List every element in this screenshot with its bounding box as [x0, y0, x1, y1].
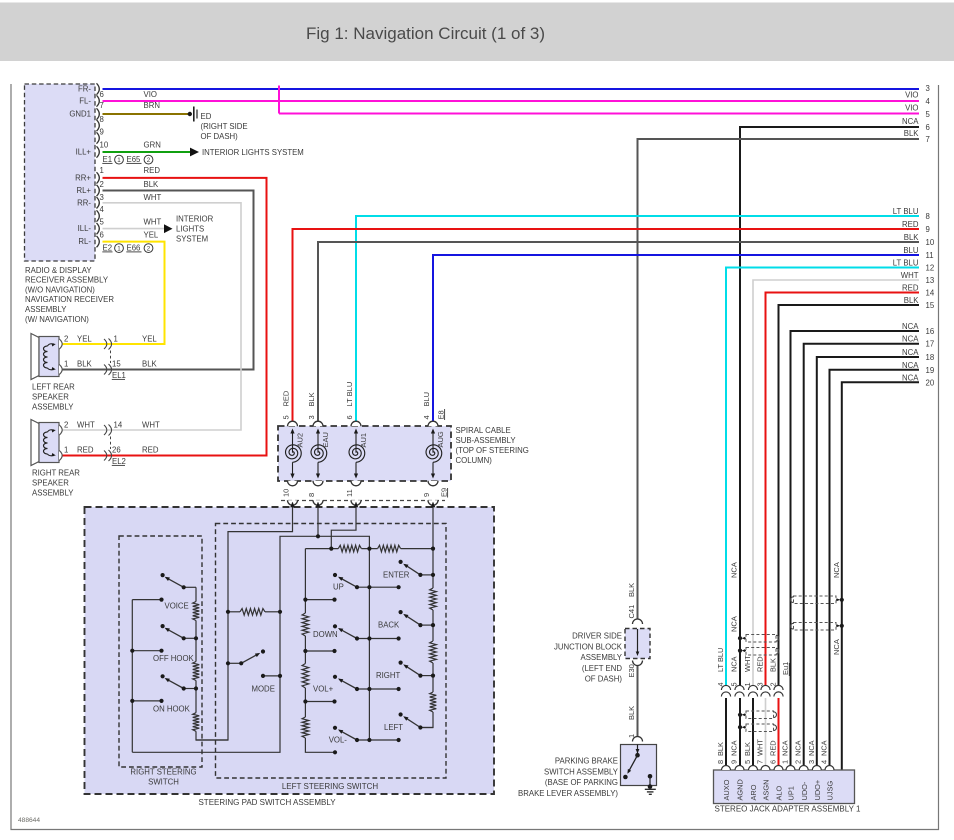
svg-text:2: 2 — [147, 246, 151, 253]
svg-text:RED: RED — [142, 446, 159, 455]
wire right pin 12 LT BLU to stereo AUXO connector — [726, 268, 919, 686]
svg-text:NCA: NCA — [902, 117, 919, 126]
svg-text:GRN: GRN — [144, 141, 161, 150]
wire pin8 branch left to MODE rail — [132, 536, 318, 752]
svg-text:6: 6 — [345, 415, 354, 419]
svg-text:Eu1: Eu1 — [781, 662, 790, 675]
svg-text:E30: E30 — [627, 664, 636, 677]
svg-text:6: 6 — [769, 760, 778, 764]
ground symbol — [648, 774, 653, 779]
svg-text:NCA: NCA — [902, 348, 919, 357]
svg-text:9: 9 — [100, 128, 104, 137]
svg-text:AU1: AU1 — [359, 433, 368, 448]
svg-text:5: 5 — [926, 110, 931, 119]
svg-text:UDO-: UDO- — [800, 781, 809, 800]
svg-text:BRAKE LEVER ASSEMBLY): BRAKE LEVER ASSEMBLY) — [518, 789, 618, 798]
svg-text:WHT: WHT — [144, 218, 162, 227]
svg-text:BLK: BLK — [77, 360, 93, 369]
left steering switch box — [216, 524, 447, 779]
svg-text:6: 6 — [926, 123, 930, 132]
svg-text:SPIRAL CABLE: SPIRAL CABLE — [456, 426, 511, 435]
svg-text:ARO: ARO — [749, 784, 758, 800]
svg-text:2: 2 — [64, 335, 68, 344]
svg-text:E66: E66 — [127, 244, 141, 253]
wire right pin 18 NCA to stereo UDO+ — [817, 357, 919, 766]
svg-text:RED: RED — [902, 220, 919, 229]
left speaker coil — [44, 346, 48, 368]
svg-text:2: 2 — [147, 157, 151, 164]
svg-text:Fig 1: Navigation Circuit (1 o: Fig 1: Navigation Circuit (1 of 3) — [306, 24, 545, 43]
svg-text:LT BLU: LT BLU — [345, 382, 354, 407]
svg-text:BACK: BACK — [378, 621, 400, 630]
svg-text:LEFT STEERING SWITCH: LEFT STEERING SWITCH — [282, 782, 379, 791]
radio connector E1 pin brackets — [97, 83, 100, 94]
svg-text:SWITCH: SWITCH — [148, 778, 179, 787]
svg-text:NCA: NCA — [820, 740, 829, 756]
ladder rail (middle) x369 — [368, 549, 370, 740]
svg-text:4: 4 — [422, 415, 431, 419]
stereo jack adapter assembly box — [714, 770, 855, 804]
svg-text:BLK: BLK — [307, 392, 316, 406]
switch UP — [339, 578, 357, 588]
resistor right rail upper — [430, 588, 437, 610]
spiral symbol EAU — [311, 445, 327, 462]
wire RL+ BLK to left rear speaker — [61, 191, 254, 370]
wire right rail mid1 — [432, 610, 434, 641]
right speaker inline connector EL2 — [104, 425, 107, 435]
svg-text:NCA: NCA — [902, 373, 919, 382]
svg-text:SUB-ASSEMBLY: SUB-ASSEMBLY — [456, 436, 517, 445]
svg-text:ALO: ALO — [775, 785, 784, 800]
spiral cable pin line with arrows (AU1) — [355, 431, 357, 453]
svg-text:DRIVER SIDE: DRIVER SIDE — [572, 632, 622, 641]
svg-text:16: 16 — [926, 327, 935, 336]
svg-text:12: 12 — [926, 264, 935, 273]
svg-text:3: 3 — [926, 84, 930, 93]
svg-text:E65: E65 — [127, 155, 142, 164]
svg-text:10: 10 — [100, 141, 109, 150]
wire right pin 14 RED to stereo ASGN connector — [766, 293, 920, 686]
svg-text:14: 14 — [926, 289, 935, 298]
svg-text:AGND: AGND — [736, 779, 745, 800]
parking brake switch assembly box — [621, 745, 657, 786]
svg-text:NCA: NCA — [794, 740, 803, 756]
switch ON HOOK — [184, 688, 196, 690]
wire AUXO BLK below connector — [725, 698, 727, 766]
wire VIO branch to right pin 5 — [278, 86, 280, 114]
svg-text:(LEFT END: (LEFT END — [582, 664, 623, 673]
svg-text:BLK: BLK — [904, 129, 920, 138]
svg-text:NCA: NCA — [730, 616, 739, 632]
svg-text:WHT: WHT — [142, 421, 160, 430]
spiral symbol AU1 — [349, 445, 365, 462]
right box stub rail x132 — [131, 600, 133, 753]
svg-text:UP: UP — [333, 583, 344, 592]
svg-text:13: 13 — [926, 276, 935, 285]
svg-text:5: 5 — [743, 760, 752, 764]
wire resistor row to right rail — [401, 548, 433, 550]
svg-text:5: 5 — [100, 218, 105, 227]
svg-text:VIO: VIO — [905, 104, 918, 113]
wire right pin 17 NCA to stereo UDO- — [804, 344, 919, 766]
svg-text:WHT: WHT — [77, 421, 95, 430]
wire BLK junction block to parking brake switch — [637, 664, 639, 738]
svg-text:2: 2 — [769, 682, 778, 686]
resistor R2 top row — [378, 545, 401, 552]
resistor right rail lower — [430, 692, 437, 712]
svg-text:INTERIOR: INTERIOR — [176, 215, 214, 224]
shield capsule right group — [794, 596, 837, 604]
svg-text:3: 3 — [100, 193, 104, 202]
svg-text:SYSTEM: SYSTEM — [176, 235, 208, 244]
svg-text:17: 17 — [926, 340, 935, 349]
svg-text:NAVIGATION RECEIVER: NAVIGATION RECEIVER — [25, 295, 114, 304]
svg-text:UJSG: UJSG — [826, 781, 835, 801]
wire right pin 7 BLK to junction block C41 — [638, 139, 920, 621]
svg-text:11: 11 — [345, 489, 354, 497]
svg-text:ASSEMBLY: ASSEMBLY — [581, 653, 623, 662]
svg-text:RED: RED — [902, 284, 919, 293]
svg-text:9: 9 — [730, 760, 739, 764]
switch VOICE — [184, 586, 196, 588]
svg-text:MODE: MODE — [252, 685, 275, 694]
svg-text:6: 6 — [100, 90, 104, 99]
svg-text:NCA: NCA — [902, 361, 919, 370]
svg-text:E2: E2 — [103, 244, 113, 253]
left rear speaker assembly — [31, 334, 39, 380]
svg-text:FL-: FL- — [79, 97, 91, 106]
svg-text:GND1: GND1 — [69, 110, 91, 119]
svg-text:LT BLU: LT BLU — [716, 648, 725, 672]
svg-text:EL1: EL1 — [112, 371, 126, 380]
svg-text:(TOP OF STEERING: (TOP OF STEERING — [456, 446, 529, 455]
svg-text:BLK: BLK — [904, 233, 920, 242]
resistor right rail mid — [430, 641, 437, 663]
wire AGND BLK below connector — [739, 698, 741, 766]
wire FL- VIO magenta to right pin 4 — [103, 100, 920, 102]
top resistor row wires — [305, 548, 338, 550]
svg-text:15: 15 — [112, 360, 121, 369]
svg-text:BLK: BLK — [144, 180, 160, 189]
svg-text:BLK: BLK — [627, 706, 636, 720]
left speaker terminals — [59, 339, 62, 349]
MODE switch — [228, 662, 241, 664]
wire between top resistors — [361, 548, 377, 550]
wire right pin 9 RED to spiral cable pin 5 — [293, 229, 920, 422]
svg-text:ASSEMBLY: ASSEMBLY — [25, 305, 67, 314]
svg-text:PARKING BRAKE: PARKING BRAKE — [555, 757, 618, 766]
svg-text:19: 19 — [926, 366, 935, 375]
svg-text:8: 8 — [716, 760, 725, 764]
switch RIGHT — [420, 675, 433, 677]
ladder rail left stubs — [305, 599, 334, 601]
svg-text:10: 10 — [926, 238, 935, 247]
right speaker terminals — [59, 425, 62, 435]
svg-text:UP1: UP1 — [787, 786, 796, 800]
wire RR+ RED to right rear speaker — [61, 178, 267, 456]
svg-text:7: 7 — [100, 101, 104, 110]
wire ILL+ GRN — [103, 151, 191, 153]
svg-text:ENTER: ENTER — [383, 570, 410, 579]
svg-text:NCA: NCA — [832, 639, 841, 655]
svg-text:26: 26 — [112, 446, 121, 455]
svg-text:NCA: NCA — [730, 562, 739, 578]
svg-text:LIGHTS: LIGHTS — [176, 225, 204, 234]
svg-text:2: 2 — [794, 760, 803, 764]
wire right rail to LEFT switch — [420, 712, 433, 728]
svg-text:NCA: NCA — [730, 656, 739, 672]
svg-text:VIO: VIO — [144, 90, 157, 99]
svg-text:SWITCH ASSEMBLY: SWITCH ASSEMBLY — [544, 767, 619, 776]
svg-text:15: 15 — [926, 301, 935, 310]
svg-text:1: 1 — [743, 682, 752, 686]
right rear speaker assembly — [31, 420, 39, 466]
svg-text:LEFT: LEFT — [384, 723, 403, 732]
svg-text:(RIGHT SIDE: (RIGHT SIDE — [201, 122, 248, 131]
MODE stub — [263, 675, 280, 677]
wire right pin 8 LT BLU to spiral cable pin 6 — [356, 216, 919, 422]
svg-text:OFF HOOK: OFF HOOK — [153, 654, 195, 663]
wire ASGN WHT below connector — [765, 698, 767, 766]
wire right rail mid2 — [432, 663, 434, 692]
svg-text:VOL-: VOL- — [329, 736, 348, 745]
svg-text:SPEAKER: SPEAKER — [32, 479, 69, 488]
switch VOL- — [339, 730, 357, 740]
svg-text:RIGHT STEERING: RIGHT STEERING — [130, 768, 196, 777]
svg-text:YEL: YEL — [142, 335, 157, 344]
svg-text:(BASE OF PARKING: (BASE OF PARKING — [545, 778, 618, 787]
shield drains to AGND below connector — [743, 714, 747, 716]
svg-text:WHT: WHT — [144, 193, 162, 202]
svg-text:ASSEMBLY: ASSEMBLY — [32, 489, 74, 498]
svg-text:RADIO & DISPLAY: RADIO & DISPLAY — [25, 266, 92, 275]
header bar — [0, 3, 954, 62]
connector E30 bump — [633, 661, 643, 666]
svg-text:LEFT REAR: LEFT REAR — [32, 382, 75, 391]
right steering switch box — [119, 536, 202, 767]
svg-text:E8: E8 — [436, 410, 445, 419]
wire right pin 16 NCA to stereo UP1 — [791, 331, 920, 766]
svg-text:RED: RED — [282, 390, 291, 406]
switch LEFT — [420, 727, 433, 729]
svg-text:3: 3 — [307, 415, 316, 419]
svg-text:UDO+: UDO+ — [813, 780, 822, 801]
svg-text:YEL: YEL — [144, 231, 159, 240]
svg-text:8: 8 — [307, 493, 316, 497]
svg-text:(W/ NAVIGATION): (W/ NAVIGATION) — [25, 315, 89, 324]
svg-text:NCA: NCA — [902, 335, 919, 344]
svg-text:5: 5 — [282, 415, 291, 419]
svg-text:RED: RED — [144, 166, 161, 175]
svg-text:STEERING PAD SWITCH ASSEMBLY: STEERING PAD SWITCH ASSEMBLY — [198, 798, 336, 807]
junction block internal wire with arrow — [637, 629, 639, 653]
svg-text:5: 5 — [730, 682, 739, 686]
svg-text:(W/O NAVIGATION): (W/O NAVIGATION) — [25, 285, 95, 294]
wire from spiral pin 9 into switch assembly (right rail) — [432, 503, 434, 589]
ladder rail (left) with resistors — [304, 549, 306, 613]
svg-text:VOL+: VOL+ — [313, 685, 334, 694]
svg-text:1: 1 — [117, 246, 121, 253]
arrow to interior lights system 2 — [164, 224, 173, 233]
svg-text:NCA: NCA — [730, 740, 739, 756]
svg-text:RR-: RR- — [77, 198, 91, 207]
svg-text:RECEIVER ASSEMBLY: RECEIVER ASSEMBLY — [25, 276, 109, 285]
svg-text:BLU: BLU — [903, 246, 919, 255]
shield capsule above connector — [746, 635, 776, 643]
steering pad connector row — [281, 500, 445, 502]
svg-text:E1: E1 — [103, 155, 113, 164]
svg-text:10: 10 — [282, 489, 291, 497]
resistor R1 top row — [338, 545, 361, 552]
wire RR- WHT to right rear speaker — [61, 203, 241, 430]
svg-text:ON HOOK: ON HOOK — [153, 704, 191, 713]
svg-text:4: 4 — [100, 205, 105, 214]
svg-text:STEREO JACK ADAPTER ASSEMBLY 1: STEREO JACK ADAPTER ASSEMBLY 1 — [715, 805, 862, 814]
driver side junction block assembly box — [625, 629, 650, 659]
svg-text:18: 18 — [926, 353, 935, 362]
svg-text:BLK: BLK — [716, 742, 725, 756]
svg-text:6: 6 — [100, 231, 104, 240]
svg-text:11: 11 — [926, 251, 934, 260]
svg-text:1: 1 — [781, 760, 790, 764]
svg-text:BLK: BLK — [904, 296, 920, 305]
svg-text:8: 8 — [100, 115, 104, 124]
steering pad switch assembly box — [85, 507, 495, 794]
svg-text:INTERIOR LIGHTS SYSTEM: INTERIOR LIGHTS SYSTEM — [202, 148, 304, 157]
svg-text:RR+: RR+ — [75, 173, 91, 182]
spiral cable top pin bumps — [288, 421, 298, 426]
switch ENTER — [420, 574, 433, 576]
svg-text:YEL: YEL — [77, 335, 92, 344]
right box stubs — [132, 599, 161, 601]
wire pin8 branch right to resistor ladder — [318, 536, 369, 548]
svg-text:RED: RED — [77, 446, 94, 455]
svg-text:4: 4 — [926, 97, 931, 106]
svg-text:2: 2 — [100, 180, 104, 189]
svg-text:4: 4 — [820, 760, 829, 764]
svg-text:1: 1 — [64, 446, 68, 455]
wire from spiral pin 11 into switch assembly — [331, 503, 356, 549]
wire right pin 13 WHT to stereo ARO connector — [753, 280, 919, 686]
svg-text:AUXO: AUXO — [722, 779, 731, 800]
svg-text:FR-: FR- — [78, 85, 91, 94]
svg-text:BLU: BLU — [422, 392, 431, 407]
switch OFF HOOK — [184, 637, 196, 639]
svg-text:BLK: BLK — [142, 360, 158, 369]
svg-text:RIGHT: RIGHT — [376, 671, 400, 680]
wire ILL- WHT to interior lights — [103, 228, 166, 230]
svg-text:ASSEMBLY: ASSEMBLY — [32, 403, 74, 412]
svg-text:COLUMN): COLUMN) — [456, 456, 493, 465]
switch DOWN — [339, 629, 357, 639]
svg-text:1: 1 — [64, 360, 68, 369]
svg-text:EL2: EL2 — [112, 457, 126, 466]
svg-text:RL+: RL+ — [76, 186, 91, 195]
svg-text:BLK: BLK — [627, 583, 636, 597]
switch BACK — [420, 624, 433, 626]
svg-text:VIO: VIO — [905, 91, 918, 100]
wire ARO BLK below connector — [752, 698, 754, 766]
wire right pin 15 BLK to stereo ALO connector — [779, 305, 920, 686]
wire right pin 6 NCA down to stereo AGND — [740, 127, 919, 686]
wire from spiral pin 10 into switch assembly — [196, 503, 293, 741]
shield drains to AGND above connector — [743, 637, 747, 639]
svg-text:14: 14 — [114, 421, 123, 430]
svg-text:AUG: AUG — [436, 431, 445, 447]
svg-text:WHT: WHT — [756, 739, 765, 756]
shield capsule below connector — [746, 711, 774, 719]
right box rail x196 with resistors — [195, 587, 197, 601]
svg-text:8: 8 — [926, 212, 930, 221]
svg-text:E9: E9 — [439, 488, 448, 497]
spiral cable bottom pin bumps — [288, 481, 298, 486]
junction dots ladder — [316, 534, 320, 538]
svg-text:NCA: NCA — [902, 322, 919, 331]
left speaker inline connector EL1 — [104, 339, 107, 349]
spiral cable pin line with arrows (AUG) — [432, 431, 434, 453]
spiral cable pin line with arrows (EAU) — [317, 431, 319, 453]
radio &amp; display receiver assembly box — [25, 84, 96, 261]
svg-text:1: 1 — [114, 335, 118, 344]
svg-text:1: 1 — [100, 166, 104, 175]
svg-text:WHT: WHT — [743, 655, 752, 672]
wire FR- VIO blue to right pin 3 — [103, 88, 920, 90]
switch VOL+ — [339, 679, 357, 689]
svg-text:RED: RED — [756, 656, 765, 672]
svg-text:ASGN: ASGN — [762, 780, 771, 801]
svg-text:9: 9 — [926, 225, 930, 234]
wire right pin 11 BLU to spiral cable pin 4 — [433, 255, 919, 422]
svg-text:RED: RED — [769, 740, 778, 756]
parking brake connector bump — [633, 737, 643, 742]
svg-text:20: 20 — [926, 378, 935, 387]
wire right pin 10 BLK to spiral cable pin 3 — [318, 242, 919, 422]
svg-text:2: 2 — [64, 421, 68, 430]
svg-text:ILL-: ILL- — [78, 224, 92, 233]
ladder rail middle stubs — [357, 586, 399, 588]
svg-text:AU2: AU2 — [296, 433, 305, 448]
svg-text:NCA: NCA — [807, 740, 816, 756]
svg-text:BLK: BLK — [743, 742, 752, 756]
spiral cable pin line with arrows (AU2) — [292, 431, 294, 453]
svg-text:WHT: WHT — [901, 271, 919, 280]
svg-text:488644: 488644 — [18, 817, 40, 824]
svg-text:LT BLU: LT BLU — [893, 259, 919, 268]
svg-text:BLK: BLK — [769, 658, 778, 672]
svg-text:ED: ED — [201, 112, 212, 121]
svg-text:3: 3 — [756, 682, 765, 686]
svg-text:C41: C41 — [627, 605, 636, 619]
shield drains right group — [836, 599, 839, 601]
wire right pin 20 NCA shield drain — [842, 382, 919, 770]
wire GND1 BRN — [103, 113, 189, 115]
spiral cable sub-assembly box — [278, 426, 451, 481]
wire RL- YEL to left rear speaker — [61, 242, 165, 344]
stereo jack box top pin bumps — [722, 766, 731, 771]
spiral symbol AUG — [426, 445, 442, 462]
splice ED on BRN wire — [188, 112, 192, 116]
svg-text:DOWN: DOWN — [313, 630, 338, 639]
svg-text:4: 4 — [716, 682, 725, 686]
wire ALO RED below connector — [778, 698, 780, 766]
svg-text:JUNCTION BLOCK: JUNCTION BLOCK — [554, 642, 623, 651]
svg-text:OF DASH): OF DASH) — [201, 132, 239, 141]
svg-text:RIGHT REAR: RIGHT REAR — [32, 468, 80, 477]
svg-text:BRN: BRN — [144, 101, 160, 110]
wire right pin 19 NCA to stereo UJSG — [830, 370, 920, 766]
svg-text:3: 3 — [807, 760, 816, 764]
svg-text:OF DASH): OF DASH) — [585, 675, 623, 684]
